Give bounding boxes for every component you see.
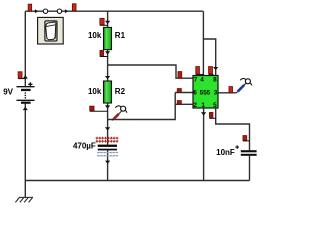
voltage bar pin8: [209, 67, 213, 74]
voltage bar battery plus: [18, 72, 22, 78]
svg-text:7: 7: [194, 77, 198, 84]
wire battery top: [24, 11, 26, 86]
capacitor C1 470uF: [73, 137, 118, 157]
svg-text:2: 2: [193, 102, 197, 109]
wire pin3 stub: [218, 92, 236, 94]
current arrow above R1: [105, 21, 110, 24]
svg-text:R1: R1: [115, 31, 126, 40]
wire R chain top: [107, 11, 109, 27]
wire top rail: [25, 10, 203, 12]
svg-text:8: 8: [213, 77, 217, 84]
current arrow above battery: [23, 75, 28, 78]
voltage bar pin5: [210, 113, 213, 119]
voltage bar node R1-R2: [100, 50, 104, 56]
voltage bar pin3: [229, 87, 233, 93]
wire cap to rail: [107, 150, 109, 180]
current arrow below battery: [23, 107, 28, 110]
resistor R1: [88, 27, 126, 49]
svg-text:4: 4: [200, 77, 204, 84]
wire junction to pin7: [108, 65, 193, 78]
current arrow below R2: [105, 105, 110, 108]
wire pin6 stub: [175, 92, 193, 94]
current arrow pin1 wire: [201, 112, 206, 115]
current arrow above R2: [105, 76, 110, 79]
svg-text:5: 5: [213, 102, 217, 109]
current arrow above C1: [105, 127, 110, 130]
current arrow below R1: [105, 51, 110, 54]
voltage bar pin7: [178, 72, 182, 78]
svg-text:555: 555: [200, 89, 211, 96]
wire 10nF to rail: [249, 156, 251, 181]
voltage bar node R2-C1: [90, 106, 94, 111]
switch contact right: [57, 9, 61, 13]
wire battery bottom: [24, 104, 26, 181]
wire junction to pins 6 and 2: [108, 93, 176, 120]
voltage bar pin2: [177, 101, 181, 105]
current arrow below C1: [105, 161, 110, 164]
svg-text:470µF: 470µF: [73, 141, 96, 150]
svg-text:3: 3: [214, 89, 218, 96]
current arrow top rail left: [35, 9, 38, 13]
wire pin5 to 10nF: [216, 108, 250, 150]
resistor R2: [88, 81, 126, 103]
battery B1 9V: [3, 82, 34, 104]
switch SW1 box: [38, 17, 64, 44]
voltage bar after switch: [72, 4, 76, 11]
current arrow after switch: [65, 9, 68, 13]
svg-text:10k: 10k: [88, 31, 102, 40]
svg-text:9V: 9V: [3, 87, 13, 96]
capacitor C2 10nF: [216, 145, 256, 157]
svg-text:R2: R2: [115, 87, 126, 96]
current arrow pin8 wire: [213, 67, 218, 70]
switch contact left: [43, 9, 47, 13]
IC U1 555 timer: [193, 76, 218, 110]
wire bottom rail: [25, 180, 249, 182]
wire pin8: [203, 39, 215, 76]
voltage bar pin4: [196, 67, 200, 74]
probe blue at pin3: [236, 78, 251, 92]
svg-text:6: 6: [193, 89, 197, 96]
voltage bar 10nF top: [243, 136, 247, 141]
svg-text:10k: 10k: [88, 87, 102, 96]
wire R1 to R2: [107, 50, 109, 82]
probe red at R2-C1 node: [112, 106, 127, 121]
voltage bar pin6: [177, 89, 181, 93]
wire ground stub: [24, 181, 26, 198]
voltage bar above R1: [100, 18, 104, 24]
svg-text:10nF: 10nF: [216, 148, 235, 157]
svg-text:1: 1: [201, 102, 205, 109]
wire pin2 stub: [175, 103, 193, 105]
wire R2 to cap: [107, 103, 109, 145]
wire pin1 to ground rail: [203, 108, 205, 181]
ground: [15, 197, 33, 202]
wire pin4: [202, 11, 204, 75]
voltage bar node battery+ top corner: [28, 4, 31, 11]
